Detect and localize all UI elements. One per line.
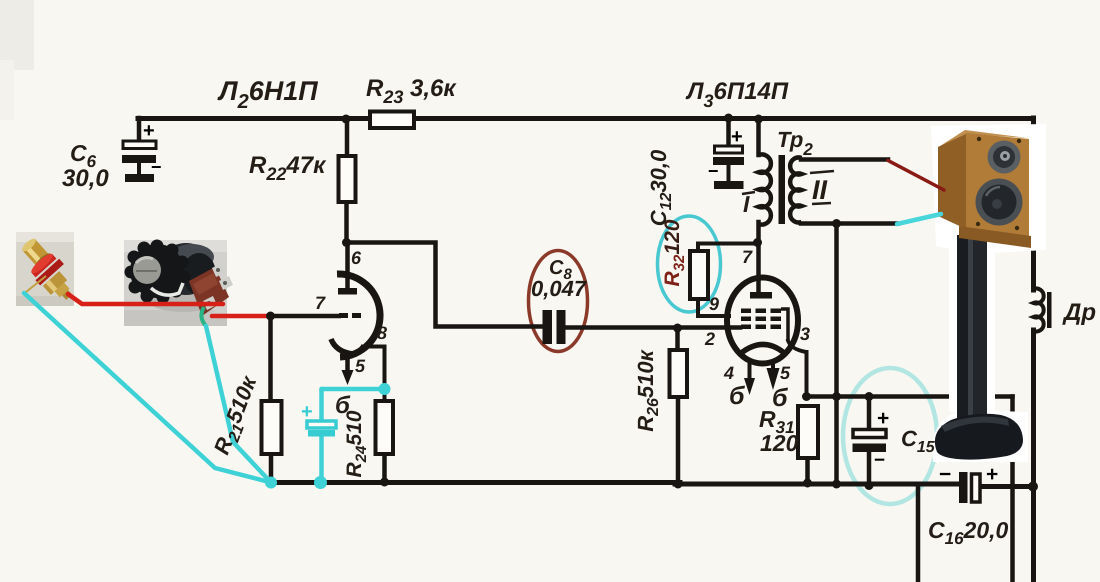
wire pentode pin3 to R31 xyxy=(788,341,807,397)
svg-text:б: б xyxy=(335,392,351,419)
svg-text:+: + xyxy=(986,463,998,486)
cyan ellipse around R32 xyxy=(658,216,721,312)
speaker cabinet front xyxy=(966,133,1029,241)
wire top rail xyxy=(138,116,1033,121)
wire triode pin8 to R24 xyxy=(363,347,385,402)
svg-text:3: 3 xyxy=(800,324,810,344)
wire bottom rail left xyxy=(271,480,680,485)
wire C6 lead xyxy=(137,118,142,142)
svg-text:+: + xyxy=(301,401,313,423)
core xyxy=(779,155,786,224)
node Tr2 primary/top rail xyxy=(754,115,763,124)
node secondary bottom xyxy=(832,219,841,228)
speaker screws xyxy=(976,137,1021,230)
RCA barrel xyxy=(19,236,53,270)
pot teal wire stub xyxy=(201,307,206,326)
photo speaker on stand xyxy=(931,124,1046,462)
pentode pin5 lead xyxy=(771,362,775,370)
wire R26 bottom lead xyxy=(676,397,681,484)
wire secondary junction drop xyxy=(834,224,839,485)
wire red speaker lead xyxy=(888,161,944,191)
svg-text:30,0: 30,0 xyxy=(62,165,109,192)
wire R22 bottom lead xyxy=(344,202,349,243)
svg-text:+: + xyxy=(143,120,155,142)
wire R32 bottom link xyxy=(698,299,729,316)
node triode grid/R21 xyxy=(266,312,275,321)
wire R21 branch xyxy=(268,316,273,482)
transformer Tr2 xyxy=(759,154,802,224)
wire red pot to grid node xyxy=(212,314,271,319)
wire triode grid lead xyxy=(270,314,339,319)
svg-text:R26510к: R26510к xyxy=(633,348,662,431)
wire cyan cathode link xyxy=(322,387,385,392)
capacitor cyan cathode bypass xyxy=(301,401,336,437)
resistor R22 xyxy=(339,156,356,202)
RCA body and tail xyxy=(43,271,77,305)
wire R24 bottom lead xyxy=(382,454,387,482)
label winding II xyxy=(810,171,834,205)
pot chrome clip xyxy=(151,283,183,295)
wire red input (RCA to pot) xyxy=(68,294,223,304)
speaker stand poles xyxy=(957,235,968,450)
wire secondary bottom lead xyxy=(801,221,898,226)
svg-text:120: 120 xyxy=(760,430,799,456)
wire right rail upper xyxy=(1031,118,1036,290)
label winding I xyxy=(742,191,755,217)
node C16/right rail xyxy=(1028,482,1038,492)
pot metal body xyxy=(158,243,214,295)
svg-text:+: + xyxy=(731,126,743,148)
resistor R32 xyxy=(690,251,708,299)
wire R26 top lead xyxy=(675,328,680,350)
node pentode anode/R32 xyxy=(753,238,762,247)
node R26 bottom xyxy=(674,480,683,489)
svg-text:II: II xyxy=(812,175,828,205)
pot solder lugs xyxy=(203,263,233,320)
resistor R21 xyxy=(262,401,282,454)
svg-text:5: 5 xyxy=(355,356,366,376)
photo potentiometer xyxy=(124,240,233,327)
svg-text:−: − xyxy=(874,450,885,471)
wire C12 lead xyxy=(726,118,731,148)
svg-text:+: + xyxy=(877,407,889,430)
wire bottom rail mid xyxy=(675,482,957,487)
choke Dr xyxy=(1034,289,1052,332)
wire right inner vertical xyxy=(1010,397,1015,582)
node C15 bottom xyxy=(865,481,874,490)
pot terminal bracket xyxy=(189,267,229,316)
wire screen rail horizontal xyxy=(806,394,1013,399)
capacitor C16 xyxy=(939,463,998,503)
pot shadow xyxy=(147,286,219,312)
svg-text:9: 9 xyxy=(709,294,719,314)
svg-text:7: 7 xyxy=(742,247,753,267)
svg-text:б: б xyxy=(772,384,789,412)
svg-text:7: 7 xyxy=(315,293,326,313)
pentode pin4 lead xyxy=(748,361,752,380)
RCA ground pin xyxy=(26,276,46,292)
primary winding I xyxy=(759,154,771,224)
wire R32 top link xyxy=(698,244,757,252)
svg-text:5: 5 xyxy=(780,363,791,383)
secondary winding II xyxy=(790,158,801,223)
white cutout halo xyxy=(931,124,1046,462)
speaker cabinet left side xyxy=(938,133,966,229)
red ellipse around C8 xyxy=(529,251,588,352)
wire secondary top lead xyxy=(801,157,888,162)
wire C16 box left vertical xyxy=(916,484,921,582)
capacitor C6 xyxy=(122,120,162,182)
node secondary drop bottom xyxy=(832,480,841,489)
wire R31 bottom lead xyxy=(805,458,810,483)
resistor R24 xyxy=(376,401,394,454)
pot knob face xyxy=(133,256,161,284)
svg-text:4: 4 xyxy=(723,363,734,383)
wire right rail lower xyxy=(1031,330,1036,582)
node C15 top xyxy=(865,392,874,401)
wire cyan speaker lead xyxy=(897,214,941,224)
node cyan ground left xyxy=(265,477,277,489)
svg-text:6: 6 xyxy=(351,248,362,268)
wire primary bottom to pentode anode xyxy=(756,222,761,294)
svg-text:−: − xyxy=(939,463,951,486)
resistor R31 xyxy=(798,406,818,458)
resistor R26 xyxy=(670,350,688,397)
capacitor C12 xyxy=(708,126,744,189)
svg-text:−: − xyxy=(708,161,719,181)
svg-text:Др: Др xyxy=(1062,299,1096,326)
node screen rail/secondary drop xyxy=(832,392,841,401)
svg-text:8: 8 xyxy=(377,323,387,343)
svg-text:−: − xyxy=(151,157,162,177)
svg-text:б: б xyxy=(729,382,746,410)
svg-text:С1230,0: С1230,0 xyxy=(646,149,675,226)
wire cyan RCA ground xyxy=(24,293,271,483)
node R31 bottom xyxy=(803,479,812,488)
svg-text:0,047: 0,047 xyxy=(531,276,588,301)
wire C8 to pentode grid xyxy=(565,325,740,330)
triode tube L2 (6N1P half) xyxy=(331,242,380,385)
svg-text:R32120: R32120 xyxy=(661,219,688,286)
node R24 bottom xyxy=(380,478,389,487)
wire R22 top lead xyxy=(345,118,350,156)
wire primary top lead xyxy=(756,118,761,155)
node triode anode xyxy=(342,238,351,247)
node pentode grid/R26 xyxy=(673,324,682,333)
photo RCA connector xyxy=(16,232,77,306)
RCA red insulator discs xyxy=(27,250,63,286)
wire C15 top lead xyxy=(867,397,872,431)
speaker woofer xyxy=(976,179,1023,226)
svg-text:R24510: R24510 xyxy=(343,410,370,477)
node R31 top xyxy=(802,392,811,401)
speaker tweeter xyxy=(988,141,1021,174)
capacitor cyan leads xyxy=(319,389,324,483)
wire bottom rail right xyxy=(980,484,1032,489)
resistor R23 xyxy=(370,112,414,129)
wire cyan pot ground xyxy=(206,326,271,483)
pentode tube L3 (6P14P) xyxy=(727,278,798,396)
capacitor C15 xyxy=(853,407,890,471)
pot knurled knob xyxy=(125,240,191,304)
wire C15 bottom lead xyxy=(867,452,872,486)
node C12/top rail xyxy=(724,114,733,123)
node cyan capacitor ground xyxy=(314,476,327,489)
pale cyan ellipse around C15 xyxy=(843,368,937,504)
svg-text:2: 2 xyxy=(704,329,715,349)
capacitor C8 with red ellipse xyxy=(543,310,566,344)
wire triode anode node to C8 branch xyxy=(346,243,543,327)
node cyan cathode xyxy=(379,383,391,395)
speaker stand base xyxy=(935,414,1023,460)
node R22/top rail xyxy=(342,115,351,124)
